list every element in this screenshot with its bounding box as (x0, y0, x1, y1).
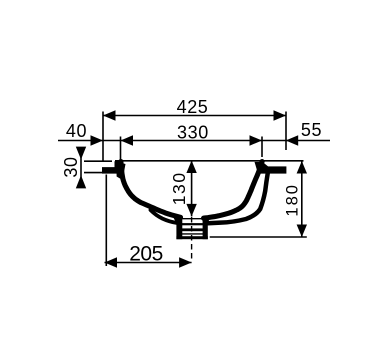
svg-text:205: 205 (129, 242, 163, 265)
svg-text:55: 55 (301, 120, 322, 140)
svg-text:330: 330 (177, 122, 209, 142)
svg-text:180: 180 (284, 183, 302, 217)
svg-text:40: 40 (66, 121, 87, 141)
svg-text:30: 30 (61, 156, 81, 177)
svg-text:130: 130 (169, 171, 189, 205)
svg-text:425: 425 (177, 97, 209, 117)
